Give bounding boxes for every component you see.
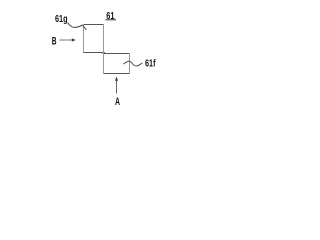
svg-text:61f: 61f — [145, 59, 156, 70]
svg-text:A: A — [115, 96, 120, 108]
svg-text:61g: 61g — [55, 14, 68, 25]
svg-text:61: 61 — [106, 11, 115, 22]
svg-text:B: B — [52, 35, 57, 47]
